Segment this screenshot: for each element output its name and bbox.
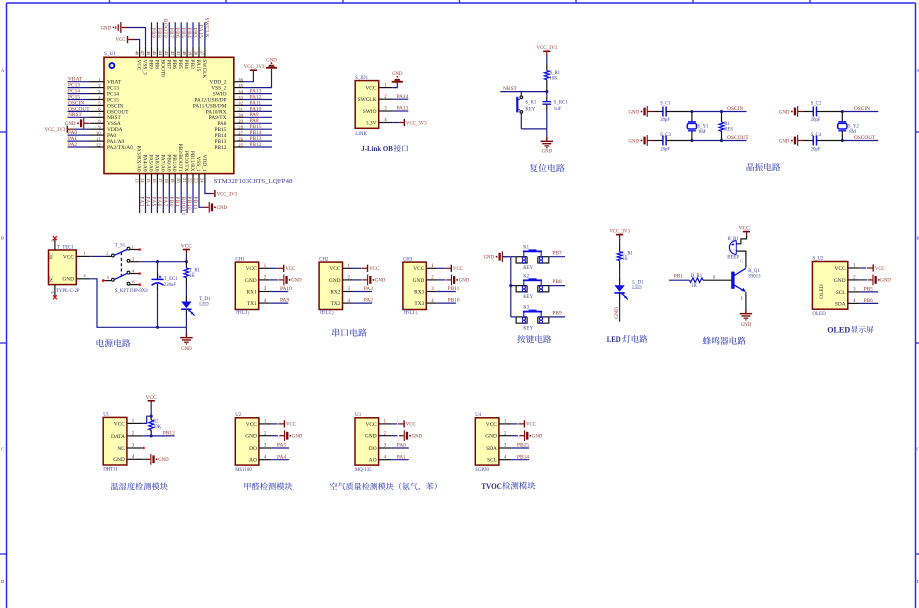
svg-text:VCC: VCC xyxy=(486,422,497,428)
svg-text:PB11/RX: PB11/RX xyxy=(189,151,195,172)
svg-text:PA5: PA5 xyxy=(150,197,156,207)
svg-text:NC: NC xyxy=(49,276,54,282)
svg-text:PA3: PA3 xyxy=(364,286,373,292)
svg-text:MQ-135: MQ-135 xyxy=(355,468,372,473)
svg-text:SDA: SDA xyxy=(835,301,846,307)
svg-text:LINK: LINK xyxy=(355,132,367,137)
svg-text:VCC_3V3: VCC_3V3 xyxy=(45,128,66,133)
svg-text:PA15: PA15 xyxy=(195,60,201,72)
svg-text:PA7/A0: PA7/A0 xyxy=(159,154,165,171)
svg-text:VCC: VCC xyxy=(329,266,340,272)
svg-text:BOOT0: BOOT0 xyxy=(162,19,168,38)
svg-text:15: 15 xyxy=(146,178,151,183)
svg-text:VCC_3V3: VCC_3V3 xyxy=(537,46,558,51)
svg-text:S_Y2: S_Y2 xyxy=(848,124,860,129)
svg-text:VCC_3V3: VCC_3V3 xyxy=(609,229,630,234)
svg-text:40: 40 xyxy=(182,51,187,56)
svg-text:46: 46 xyxy=(146,51,151,56)
svg-text:T_R1: T_R1 xyxy=(189,268,201,273)
svg-text:K3: K3 xyxy=(523,306,529,311)
svg-text:VCC: VCC xyxy=(246,422,257,428)
svg-text:KEY: KEY xyxy=(525,107,535,112)
svg-text:PA6: PA6 xyxy=(156,196,162,206)
svg-text:C: C xyxy=(740,259,743,264)
svg-text:PA6/A0: PA6/A0 xyxy=(153,154,159,171)
svg-text:PB0/A0: PB0/A0 xyxy=(165,154,171,172)
svg-text:8M: 8M xyxy=(699,130,706,135)
svg-text:BOOT1: BOOT1 xyxy=(180,197,186,216)
svg-text:SGP30: SGP30 xyxy=(475,468,489,473)
svg-text:GND: GND xyxy=(62,277,74,283)
svg-text:GND: GND xyxy=(542,150,553,155)
svg-text:B: B xyxy=(713,274,716,279)
svg-text:PB3: PB3 xyxy=(189,59,195,69)
svg-text:CH1: CH1 xyxy=(236,257,246,262)
svg-text:PB7: PB7 xyxy=(168,28,174,38)
svg-text:GND: GND xyxy=(741,323,752,328)
svg-text:PB8: PB8 xyxy=(153,59,159,69)
svg-text:GND: GND xyxy=(266,59,277,64)
svg-text:GND: GND xyxy=(880,279,891,284)
svg-text:PA4: PA4 xyxy=(144,196,150,206)
svg-text:PB4: PB4 xyxy=(186,28,192,38)
svg-text:GND: GND xyxy=(158,458,169,463)
svg-text:GND: GND xyxy=(217,206,228,211)
svg-text:MS1100: MS1100 xyxy=(235,468,252,473)
svg-text:PB8: PB8 xyxy=(552,279,562,285)
svg-text:TX1: TX1 xyxy=(247,301,257,307)
svg-text:PB7: PB7 xyxy=(165,60,171,70)
svg-text:SCL: SCL xyxy=(836,290,846,296)
svg-text:GND: GND xyxy=(532,435,543,440)
svg-text:STM32F103C8T6_LQFP48: STM32F103C8T6_LQFP48 xyxy=(214,179,293,185)
svg-text:GND: GND xyxy=(413,278,425,284)
svg-text:37: 37 xyxy=(200,51,205,56)
svg-text:PA4: PA4 xyxy=(277,454,286,460)
svg-text:DO: DO xyxy=(249,446,257,452)
svg-text:LED: LED xyxy=(199,303,209,308)
svg-text:GND: GND xyxy=(181,347,192,352)
svg-text:TX3: TX3 xyxy=(414,301,424,307)
svg-text:20pF: 20pF xyxy=(660,118,670,123)
svg-text:VDD_1: VDD_1 xyxy=(201,155,207,172)
svg-text:U4: U4 xyxy=(475,413,481,418)
svg-text:U3: U3 xyxy=(355,413,361,418)
svg-text:43: 43 xyxy=(164,51,169,56)
svg-text:1K: 1K xyxy=(691,284,697,289)
svg-text:VCC: VCC xyxy=(366,422,377,428)
svg-text:AO: AO xyxy=(369,458,377,464)
svg-text:VCC: VCC xyxy=(406,423,416,428)
svg-text:20pF: 20pF xyxy=(811,147,821,152)
svg-text:16: 16 xyxy=(152,178,157,183)
svg-text:PA3: PA3 xyxy=(138,197,144,207)
svg-text:VCC: VCC xyxy=(365,86,376,92)
svg-text:GND: GND xyxy=(459,279,470,284)
svg-text:PA14: PA14 xyxy=(397,94,409,100)
svg-text:TX2: TX2 xyxy=(331,301,341,307)
svg-text:OSCOUT: OSCOUT xyxy=(727,135,749,141)
svg-text:VCC: VCC xyxy=(875,267,885,272)
svg-text:1uF: 1uF xyxy=(554,107,562,112)
svg-text:3.3V: 3.3V xyxy=(366,120,377,126)
svg-text:KEY: KEY xyxy=(523,295,533,300)
svg-text:B: B xyxy=(1,236,4,241)
svg-text:GND: GND xyxy=(291,279,302,284)
svg-text:VCC: VCC xyxy=(285,267,295,272)
svg-text:SCL: SCL xyxy=(487,458,497,464)
svg-text:PB9: PB9 xyxy=(150,28,156,38)
svg-text:OLED: OLED xyxy=(819,284,825,298)
svg-text:8M: 8M xyxy=(849,130,856,135)
svg-text:CH2: CH2 xyxy=(319,257,329,262)
svg-text:GND: GND xyxy=(484,256,495,261)
svg-text:SDA: SDA xyxy=(486,446,497,452)
svg-text:PA2: PA2 xyxy=(364,298,373,304)
svg-text:SWCLK: SWCLK xyxy=(358,97,377,103)
svg-text:3: 3 xyxy=(415,311,417,316)
svg-text:VSS_3: VSS_3 xyxy=(142,59,148,75)
svg-text:OSCIN: OSCIN xyxy=(727,106,743,112)
svg-text:GND: GND xyxy=(628,110,639,115)
svg-text:S_C1: S_C1 xyxy=(660,101,671,106)
svg-text:OLED: OLED xyxy=(827,324,850,334)
svg-text:K2: K2 xyxy=(523,274,529,279)
svg-text:RX2: RX2 xyxy=(330,289,340,295)
svg-text:T_D1: T_D1 xyxy=(199,297,211,302)
svg-text:AO: AO xyxy=(249,458,257,464)
svg-text:PA9: PA9 xyxy=(280,298,289,304)
svg-text:TYPE-C-2P: TYPE-C-2P xyxy=(56,289,80,294)
svg-text:GND: GND xyxy=(329,278,341,284)
svg-text:K1: K1 xyxy=(523,245,529,250)
svg-text:PB12: PB12 xyxy=(250,142,262,148)
svg-text:PB14: PB14 xyxy=(517,454,529,460)
svg-text:L_D1: L_D1 xyxy=(632,281,644,286)
svg-text:NC: NC xyxy=(117,446,125,452)
svg-text:PB12: PB12 xyxy=(215,145,227,151)
svg-text:1K: 1K xyxy=(189,274,195,279)
svg-text:SWCLK: SWCLK xyxy=(204,18,210,39)
svg-text:VCC: VCC xyxy=(116,38,126,43)
svg-text:24: 24 xyxy=(200,178,205,183)
svg-text:NC: NC xyxy=(49,253,54,259)
svg-text:17: 17 xyxy=(158,178,163,183)
svg-text:VCC: VCC xyxy=(739,226,750,232)
svg-text:VCC: VCC xyxy=(114,421,125,427)
svg-text:NRST: NRST xyxy=(68,112,82,118)
svg-text:GND: GND xyxy=(628,139,639,144)
svg-text:DATA: DATA xyxy=(111,434,125,440)
svg-text:PB6: PB6 xyxy=(174,28,180,38)
svg-text:VCC: VCC xyxy=(526,423,536,428)
svg-text:S_U1: S_U1 xyxy=(104,51,116,57)
svg-text:T_EC1: T_EC1 xyxy=(164,277,178,282)
svg-text:44: 44 xyxy=(158,51,163,56)
svg-text:PA10: PA10 xyxy=(280,286,292,292)
svg-text:45: 45 xyxy=(152,51,157,56)
svg-text:GND: GND xyxy=(245,434,257,440)
svg-text:DHT11: DHT11 xyxy=(103,468,118,473)
svg-text:PB5: PB5 xyxy=(180,28,186,38)
svg-text:19: 19 xyxy=(170,178,175,183)
svg-text:PB1: PB1 xyxy=(174,196,180,206)
svg-text:PB10: PB10 xyxy=(448,298,460,304)
svg-text:38: 38 xyxy=(194,51,199,56)
svg-text:1K: 1K xyxy=(622,257,628,262)
svg-text:VCC: VCC xyxy=(413,266,424,272)
svg-text:48: 48 xyxy=(134,51,139,56)
svg-text:RX1: RX1 xyxy=(247,289,257,295)
svg-text:PB8: PB8 xyxy=(156,28,162,38)
svg-text:VCC: VCC xyxy=(835,266,846,272)
svg-text:GND: GND xyxy=(485,434,497,440)
svg-text:PB9: PB9 xyxy=(552,311,562,317)
svg-text:21: 21 xyxy=(182,178,187,183)
svg-text:OSCIN: OSCIN xyxy=(854,106,870,112)
svg-text:KEY: KEY xyxy=(523,266,533,271)
svg-text:U1: U1 xyxy=(103,413,109,418)
svg-text:S_U2: S_U2 xyxy=(812,257,824,262)
svg-text:BEEP: BEEP xyxy=(727,255,739,260)
svg-text:14: 14 xyxy=(140,178,145,183)
svg-text:GND: GND xyxy=(779,110,790,115)
svg-text:TVOC: TVOC xyxy=(481,481,502,491)
svg-text:PB4: PB4 xyxy=(183,60,189,70)
svg-text:PB10: PB10 xyxy=(186,197,192,211)
svg-text:LED: LED xyxy=(632,286,642,291)
svg-text:GND: GND xyxy=(365,434,377,440)
svg-text:VCC: VCC xyxy=(136,60,142,71)
svg-text:OLED: OLED xyxy=(812,312,826,317)
svg-text:PA13: PA13 xyxy=(397,106,409,112)
svg-text:20pF: 20pF xyxy=(660,147,670,152)
svg-text:J-Link OB: J-Link OB xyxy=(361,144,393,153)
svg-text:RX3: RX3 xyxy=(414,289,424,295)
svg-text:PB1: PB1 xyxy=(674,273,684,279)
svg-text:S_RC1: S_RC1 xyxy=(554,101,568,106)
svg-text:PA2/TX/A0: PA2/TX/A0 xyxy=(107,145,133,151)
svg-text:GND: GND xyxy=(779,139,790,144)
svg-text:U2: U2 xyxy=(235,413,241,418)
svg-text:20pF: 20pF xyxy=(811,118,821,123)
svg-text:10K: 10K xyxy=(549,76,558,81)
svg-text:GND: GND xyxy=(412,435,423,440)
svg-text:PB5: PB5 xyxy=(177,60,183,70)
svg-text:PB3: PB3 xyxy=(192,28,198,38)
svg-text:PB10/TX: PB10/TX xyxy=(183,151,189,172)
svg-text:PB2/BOOT1: PB2/BOOT1 xyxy=(177,143,183,171)
svg-text:PB9: PB9 xyxy=(147,60,153,70)
svg-text:DO: DO xyxy=(369,446,377,452)
svg-text:PB6: PB6 xyxy=(864,298,874,304)
svg-text:VCC_3V3: VCC_3V3 xyxy=(244,65,265,70)
svg-text:20: 20 xyxy=(176,178,181,183)
svg-text:PB6: PB6 xyxy=(171,59,177,69)
svg-text:PB15: PB15 xyxy=(517,443,529,449)
svg-text:39: 39 xyxy=(188,51,193,56)
svg-text:T_TEC1: T_TEC1 xyxy=(57,245,74,250)
svg-text:PB7: PB7 xyxy=(552,250,562,256)
svg-text:S_Y1: S_Y1 xyxy=(698,124,710,129)
svg-text:S_C3: S_C3 xyxy=(660,133,671,138)
svg-text:S_JD1: S_JD1 xyxy=(355,76,368,81)
svg-text:R_Q1: R_Q1 xyxy=(748,269,760,274)
svg-text:S_C4: S_C4 xyxy=(811,133,822,138)
svg-text:KEY: KEY xyxy=(523,326,533,331)
svg-text:BOOT0: BOOT0 xyxy=(159,59,165,77)
svg-text:NRST: NRST xyxy=(503,86,517,92)
svg-text:41: 41 xyxy=(176,51,181,56)
svg-text:PB11: PB11 xyxy=(448,286,460,292)
svg-text:VCC: VCC xyxy=(369,267,379,272)
svg-text:PB1/A0: PB1/A0 xyxy=(171,154,177,172)
svg-text:PB12: PB12 xyxy=(163,430,175,436)
svg-text:GND: GND xyxy=(101,26,112,31)
svg-text:GND: GND xyxy=(113,457,125,463)
svg-text:13: 13 xyxy=(134,178,139,183)
svg-text:B_B1: B_B1 xyxy=(728,237,740,242)
svg-text:VCC: VCC xyxy=(63,254,74,260)
svg-text:VCC: VCC xyxy=(453,267,463,272)
svg-text:VCC: VCC xyxy=(286,423,296,428)
svg-text:D_R1: D_R1 xyxy=(691,274,703,279)
svg-text:PA5: PA5 xyxy=(277,443,286,449)
svg-text:GND: GND xyxy=(245,278,257,284)
svg-text:PA1: PA1 xyxy=(397,454,406,460)
svg-text:LED: LED xyxy=(607,335,621,344)
svg-text:47: 47 xyxy=(140,51,145,56)
svg-text:T_S1: T_S1 xyxy=(115,244,126,249)
svg-text:PA0: PA0 xyxy=(397,443,406,449)
svg-text:PA5/A0: PA5/A0 xyxy=(147,154,153,171)
svg-text:6: 6 xyxy=(50,292,55,294)
svg-text:42: 42 xyxy=(170,51,175,56)
svg-text:PB11: PB11 xyxy=(192,196,198,209)
svg-text:GND: GND xyxy=(375,279,386,284)
svg-text:E: E xyxy=(741,296,744,301)
svg-text:PB5: PB5 xyxy=(864,287,874,293)
svg-text:PA3/RX/A0: PA3/RX/A0 xyxy=(136,145,142,171)
svg-text:VCC_3V3: VCC_3V3 xyxy=(406,121,427,126)
svg-text:PA4/A0: PA4/A0 xyxy=(142,154,148,171)
svg-text:GND: GND xyxy=(834,278,846,284)
svg-text:RES: RES xyxy=(724,128,733,133)
svg-text:L_R1: L_R1 xyxy=(622,251,634,256)
svg-text:6: 6 xyxy=(50,240,55,242)
svg-text:22: 22 xyxy=(188,178,193,183)
svg-text:PB0: PB0 xyxy=(168,197,174,207)
svg-text:OSCOUT: OSCOUT xyxy=(854,135,876,141)
svg-text:VCC: VCC xyxy=(246,266,257,272)
svg-text:VSS_1: VSS_1 xyxy=(195,156,201,172)
svg-text:2: 2 xyxy=(332,311,334,316)
svg-text:23: 23 xyxy=(194,178,199,183)
svg-text:18: 18 xyxy=(164,178,169,183)
svg-text:C: C xyxy=(1,447,4,452)
svg-text:S_C2: S_C2 xyxy=(811,101,822,106)
svg-text:S_K1: S_K1 xyxy=(525,101,537,106)
svg-text:PA7: PA7 xyxy=(162,196,168,206)
svg-text:S9013: S9013 xyxy=(748,274,761,279)
svg-text:SWCLK: SWCLK xyxy=(201,60,207,79)
svg-text:GND: GND xyxy=(292,435,303,440)
svg-text:VCC_3V3: VCC_3V3 xyxy=(217,192,238,197)
svg-text:220uF: 220uF xyxy=(164,283,177,288)
svg-text:GND: GND xyxy=(614,307,620,319)
svg-text:R2: R2 xyxy=(153,419,159,424)
svg-text:R1: R1 xyxy=(724,122,730,127)
svg-text:PA2: PA2 xyxy=(68,142,77,148)
svg-text:10K: 10K xyxy=(153,425,162,430)
svg-text:PA15: PA15 xyxy=(198,25,204,38)
svg-text:S_KFT DIP-8X8: S_KFT DIP-8X8 xyxy=(115,289,148,294)
svg-text:CH3: CH3 xyxy=(403,257,413,262)
svg-text:SWIO: SWIO xyxy=(363,109,377,115)
svg-text:1: 1 xyxy=(248,311,250,316)
